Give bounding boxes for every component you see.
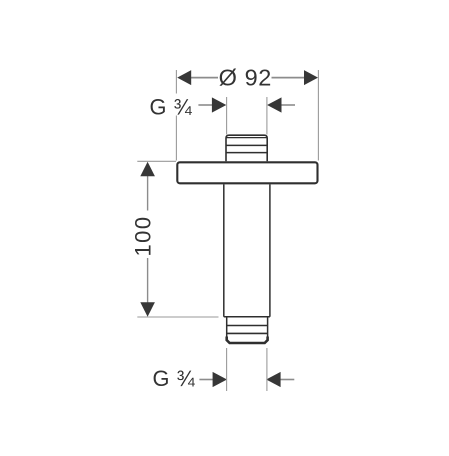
- flange (escutcheon): [177, 162, 317, 183]
- dimension label D92: [219, 65, 272, 91]
- dimension 100 bottom extension line: [137, 316, 218, 318]
- bottom threaded end: [226, 317, 267, 343]
- svg-text:Ø 92: Ø 92: [219, 65, 272, 91]
- dimension G3/4 bottom left arrow: [199, 372, 227, 387]
- extension line G3/4 bottom left: [226, 348, 228, 391]
- extension line G3/4 top left: [226, 97, 228, 135]
- dimension G3/4 top right arrow: [267, 97, 295, 112]
- arrowhead 100 bottom: [140, 302, 155, 316]
- top threaded nipple: [226, 135, 267, 161]
- dimension line 100: [147, 176, 149, 303]
- svg-text:G ¾: G ¾: [150, 94, 193, 119]
- extension line D92 right: [317, 70, 319, 161]
- arrowhead D92 left: [177, 70, 191, 85]
- extension line G3/4 bottom right: [266, 348, 268, 391]
- dimension line D92: [190, 77, 305, 79]
- arrowhead D92 right: [304, 70, 318, 85]
- svg-text:100: 100: [131, 216, 156, 257]
- dimension G3/4 top left arrow: [198, 97, 226, 112]
- arrowhead 100 top: [140, 162, 155, 176]
- dimension 100 top extension line: [137, 160, 176, 162]
- extension line G3/4 top right: [266, 97, 268, 135]
- svg-text:G ¾: G ¾: [153, 366, 196, 391]
- dimension G3/4 bottom right arrow: [266, 372, 294, 387]
- extension line D92 left: [175, 70, 177, 161]
- pipe body: [224, 184, 270, 316]
